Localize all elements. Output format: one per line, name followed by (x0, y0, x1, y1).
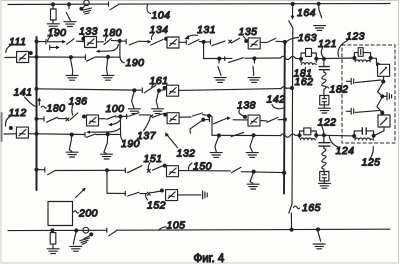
transfer arrow 180 up (38, 100, 40, 105)
capacitor chain 2 (323, 135, 325, 142)
earthing point circle on bus 104 (84, 0, 89, 5)
earthing branch 161-1 (132, 91, 135, 108)
wire to node (112, 40, 120, 42)
node tee to row F (106, 169, 109, 172)
ground under switch 105 (70, 246, 82, 251)
disconnector row F-1 (128, 192, 139, 196)
disconnector row C-3 (129, 113, 139, 116)
disconnector row E-2 (128, 166, 142, 173)
svg-text:165: 165 (302, 202, 321, 214)
hop over vertical 163 (281, 87, 286, 89)
capacitor chain 1 (323, 59, 325, 67)
feeder row D lead-in (4, 133, 17, 135)
breaker 138 (248, 115, 260, 126)
wire after 132 (179, 116, 191, 118)
node 161 on vertical 164 (291, 87, 294, 90)
svg-text:111: 111 (9, 36, 26, 48)
node vertical 164 on bus 104 (291, 3, 294, 6)
node row D on bus (35, 132, 38, 135)
crossing hop row D over buses (281, 134, 296, 137)
transfer arrow to row D (90, 129, 121, 133)
arrow mark 134 (148, 40, 152, 44)
node ground tap D2 (106, 133, 109, 136)
label 165 (294, 206, 300, 209)
node 138 on vertical 163 (283, 118, 286, 121)
damping capacitor branch D (354, 131, 362, 136)
svg-text:180: 180 (47, 103, 66, 115)
disconnector row B (84, 55, 86, 60)
wire row D (37, 133, 86, 136)
ground under resistor (47, 24, 59, 29)
node ground tap E (252, 170, 255, 173)
breaker 111 (17, 52, 29, 63)
wire row B' right (245, 57, 281, 59)
inductor chain 1 (322, 70, 326, 95)
svg-text:132: 132 (177, 148, 196, 160)
switch junction 1 to mid (378, 82, 384, 96)
series capacitor bottom (346, 110, 350, 112)
node bus 105 at earth switch (75, 229, 78, 232)
damping resistor branch C (300, 131, 304, 135)
svg-text:163: 163 (298, 32, 317, 44)
disconnector row C-2 (107, 116, 116, 120)
node ground tap 161-1 (133, 89, 136, 92)
svg-text:137: 137 (137, 130, 157, 142)
wire 121 row (296, 57, 302, 60)
node arrester junction 2 (381, 111, 384, 114)
disconnector 136 (70, 113, 78, 120)
earthing switch bus 104 right (319, 4, 322, 18)
vertical bus 165 lower (290, 213, 292, 230)
breaker 152 (166, 190, 178, 201)
ground chain 1 (318, 108, 330, 113)
left vertical bus (36, 37, 38, 190)
wire after 133 (97, 41, 104, 43)
wire row F mid (140, 193, 147, 195)
node at breaker 135 (245, 40, 248, 43)
svg-text:Фиг. 4: Фиг. 4 (194, 253, 225, 264)
node ground tap 161-2 (157, 89, 160, 92)
node at breaker 131 (165, 37, 168, 40)
node ground tap 2 (107, 55, 110, 58)
wire row D' (212, 134, 281, 136)
svg-text:122: 122 (318, 117, 337, 129)
svg-text:151: 151 (144, 153, 163, 165)
disconnector 138-left with arrow (213, 118, 227, 124)
node row 161 on bus (35, 87, 38, 90)
disconnector to bus 163 (268, 38, 276, 42)
node 165 on bus 105 (290, 228, 293, 231)
resistor on bus 104 (52, 4, 54, 9)
disconnector row D (84, 132, 86, 136)
node arrester junction 1 (382, 80, 385, 83)
node row C transfer (119, 115, 122, 118)
crossing hop over 163/164 buses (281, 56, 296, 59)
node ground tap D'2 (252, 134, 255, 137)
node 138 row left (202, 118, 205, 121)
ground chain 2 (318, 183, 330, 188)
disconnector row E-3 (153, 165, 165, 170)
svg-text:121: 121 (318, 38, 337, 50)
wire row A with arrow (48, 41, 63, 43)
spark gap chain 2 (320, 172, 329, 181)
bottom busbar 105 right segment (117, 229, 391, 230)
node ground tap D1 (70, 133, 73, 136)
earthing switch on bus 105 (73, 232, 76, 245)
scan edge artifact left (1, 113, 3, 141)
earthing point circle on bus 105 (83, 227, 89, 233)
breaker 132 (167, 113, 179, 124)
node row E on vertical 163 (283, 171, 286, 174)
node at breaker 132 (164, 113, 167, 116)
disconnector 161 row (141, 88, 143, 93)
vertical bus 163 (283, 42, 286, 194)
transfer arrow 190 (49, 45, 51, 50)
surge arrester 1 (378, 64, 390, 76)
top busbar 104 right segment (118, 3, 390, 6)
wire after 151 (179, 170, 231, 172)
disconnector 180 (104, 39, 111, 45)
svg-text:133: 133 (79, 26, 98, 38)
hatch strokes (83, 8, 92, 10)
breaker 100 (87, 115, 99, 126)
wire row D to bus (28, 133, 36, 135)
breaker 131 (167, 37, 179, 48)
node at breaker 161 (163, 86, 166, 89)
node row B on bus (35, 56, 38, 59)
inductor branch C (300, 135, 317, 140)
svg-text:164: 164 (297, 7, 316, 19)
label 182 (326, 87, 329, 88)
svg-text:182: 182 (330, 84, 349, 96)
earthing branch (71, 57, 73, 75)
hatch strokes bottom (80, 238, 90, 241)
x mark row C (66, 118, 69, 121)
wire row 161 (37, 89, 143, 90)
svg-text:190: 190 (126, 57, 145, 69)
disconnector 164 (289, 21, 293, 28)
svg-text:123: 123 (346, 31, 365, 43)
node ground tap (69, 56, 72, 59)
svg-text:125: 125 (362, 157, 381, 169)
bottom busbar 105 left segment (8, 229, 107, 231)
disconnector on bus 105 (109, 231, 117, 236)
svg-text:141: 141 (14, 87, 33, 99)
wire after breaker (99, 118, 106, 120)
wire into breaker 161 (159, 89, 165, 92)
node row A transfer (118, 39, 121, 42)
node filter B left (353, 57, 356, 60)
wire row C start (37, 118, 45, 120)
wire 122 row (295, 134, 299, 136)
earthing branch D1 (69, 135, 72, 152)
node filter A left (300, 57, 303, 60)
node at breaker row C (83, 115, 86, 118)
disconnector row E-1 (48, 170, 56, 174)
node ground tap B'2 (253, 57, 256, 60)
wire row E (55, 169, 125, 171)
node chain 1 (322, 57, 325, 60)
wire row E start (37, 169, 45, 171)
vertical link to row D (120, 117, 124, 141)
node on bus 104 at resistor (52, 3, 55, 6)
label 180 mid (41, 106, 46, 108)
wire to chain 1 (316, 57, 354, 60)
vertical bus 164/165 upper (292, 4, 294, 17)
svg-text:131: 131 (197, 24, 216, 36)
svg-text:124: 124 (336, 145, 355, 157)
label 200 (74, 211, 79, 213)
disconnector row C-1 (47, 117, 58, 122)
resistor on bus 105 (51, 230, 53, 232)
node row C on bus (35, 117, 38, 120)
wire row 161 long right (179, 89, 281, 91)
wire row B (37, 56, 86, 58)
stub below arrester 2 (375, 127, 384, 135)
earthing switch on bus 104 (68, 4, 70, 8)
svg-text:142: 142 (267, 94, 286, 106)
wire row E right (242, 171, 285, 174)
wire row B right (96, 56, 120, 58)
arrow from box 200 (76, 190, 84, 198)
inductor chain 2 (322, 146, 326, 171)
feeder row B lead-in (5, 56, 17, 58)
node ground tap D'1 (217, 134, 220, 137)
node filter D right (372, 134, 375, 137)
x mark 151 (147, 169, 150, 172)
disconnector on bus 104 (110, 5, 118, 10)
node at breaker 152 (161, 189, 164, 192)
transfer arrow upper (112, 120, 121, 125)
link to arrester 1 (371, 58, 377, 63)
wire row B to bus (29, 56, 37, 58)
earthing branch B'1 (218, 59, 221, 76)
earthing branch E (250, 172, 253, 183)
vertical link bay1 to row B' (203, 42, 205, 59)
node on bus 104 at earth switch (68, 3, 71, 6)
node after 111 (29, 52, 32, 55)
termination bars mid (382, 95, 386, 97)
x mark 137 (150, 115, 153, 118)
disconnector after 131 (188, 40, 199, 45)
damping resistor 181 branch (301, 53, 306, 59)
wire after 131 (179, 41, 186, 43)
disconnector 133-side (67, 39, 75, 45)
x mark (229, 40, 232, 43)
disconnector after transfer node (129, 41, 139, 45)
node filter A right (315, 57, 318, 60)
node bus 105 right switch (317, 228, 320, 231)
node bus 105 at resistor (51, 229, 54, 232)
wire row A to 135 bay (204, 41, 211, 43)
disconnector row E-4 (232, 167, 242, 172)
disconnector 134 (151, 40, 163, 46)
node ground tap B'1 (218, 57, 221, 60)
earthing branch D'2 (250, 136, 253, 152)
node bus 104 right earth (317, 2, 320, 5)
wire 138 row (203, 119, 209, 121)
svg-text:152: 152 (147, 200, 166, 212)
spark gap chain 1 (320, 96, 329, 105)
link from row D' down to 138 row (190, 120, 203, 129)
inductor branch B (354, 58, 370, 62)
earthing branch 161-2 (156, 91, 159, 108)
wire after 135 (260, 41, 267, 43)
wire after 138 (260, 119, 267, 122)
tick row E (124, 168, 126, 172)
ground under switch (64, 22, 76, 27)
ground under resistor 105 (47, 249, 59, 254)
disconnector row D' (231, 132, 244, 136)
tee vertical row E to row F (106, 170, 108, 193)
breaker 161 (167, 85, 179, 96)
node row A on vertical 163 (283, 40, 286, 43)
wire 161 to vertical 164 (286, 87, 292, 89)
breaker 112 (16, 127, 28, 138)
breaker 135 (248, 38, 260, 49)
operating device box 200 (48, 202, 73, 226)
vertical link to row B (120, 41, 124, 63)
svg-text:135: 135 (239, 26, 258, 38)
series capacitor top (346, 80, 350, 82)
transfer arrow to row B (99, 45, 118, 52)
wire to chain 2 (316, 134, 354, 137)
dashed enclosure 123/125 (342, 45, 395, 143)
breaker 133 (85, 37, 97, 48)
node row A right (202, 40, 205, 43)
svg-text:150: 150 (193, 161, 212, 173)
disconnector 135-right (231, 38, 239, 43)
inductor branch D (354, 136, 373, 140)
wire row B' (204, 57, 232, 59)
top busbar 104 left segment (8, 3, 109, 5)
earthing switch right (318, 230, 321, 241)
svg-text:104: 104 (152, 10, 171, 22)
damping resistor branch B (354, 53, 358, 58)
wire row F (107, 192, 125, 194)
switch mid to junction 2 (377, 97, 382, 112)
earthing branch D'1 (215, 136, 219, 152)
wire row D right (96, 133, 121, 135)
vertical link bay3 to row D' (209, 116, 212, 136)
switch cap bottom to junction (355, 110, 380, 112)
wire row C mid (120, 115, 128, 117)
x mark 152 (147, 192, 150, 195)
breaker 151 (167, 166, 179, 177)
node filter B right (369, 57, 372, 60)
surge arrester 2 (382, 113, 384, 115)
wire row A mid (120, 40, 127, 42)
svg-text:105: 105 (167, 220, 186, 232)
switch cap top to junction (355, 80, 381, 83)
svg-text:112: 112 (9, 107, 27, 119)
svg-text:136: 136 (69, 96, 88, 108)
node at arrester 1 (377, 63, 380, 66)
disconnector 165 (289, 204, 292, 213)
node row E on bus (35, 168, 38, 171)
node chain 2 (322, 134, 325, 137)
tick row B' (224, 57, 226, 61)
row A from bus (35, 40, 38, 43)
node at breaker 133 (82, 37, 85, 40)
svg-text:162: 162 (295, 76, 314, 88)
node filter C right (315, 134, 318, 137)
inductor 162 branch (301, 59, 316, 65)
earthing branch 2 (107, 57, 109, 75)
node row C right (208, 114, 211, 117)
svg-text:200: 200 (78, 208, 98, 220)
node mid junction (381, 95, 384, 98)
svg-text:134: 134 (150, 24, 169, 36)
vertical bus 164/165 main (291, 28, 294, 204)
disconnector 137 (154, 114, 164, 118)
disconnector 135-left (212, 41, 225, 46)
earthing branch D2 (104, 135, 108, 154)
wire after 152 (178, 194, 201, 196)
disconnector row B' (229, 58, 244, 63)
disconnector row C-4 (193, 113, 203, 116)
svg-text:100: 100 (106, 103, 125, 115)
disconnector 138-right (267, 117, 278, 122)
node filter C left (298, 134, 301, 137)
stub below arrester 1 (382, 76, 384, 81)
earthing branch B'2 (253, 59, 254, 76)
node filter D left (353, 135, 356, 138)
node at breaker 138 (244, 116, 247, 119)
node at breaker 151 (163, 164, 166, 167)
line termination bars (202, 191, 204, 199)
